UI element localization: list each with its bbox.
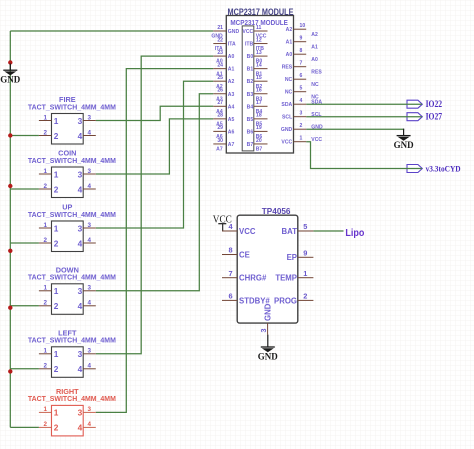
svg-text:PROG: PROG (274, 296, 297, 305)
svg-text:IO22: IO22 (426, 100, 443, 110)
svg-text:1: 1 (300, 136, 303, 142)
svg-text:22: 22 (217, 37, 223, 43)
svg-text:3: 3 (300, 111, 303, 117)
svg-text:8: 8 (228, 246, 232, 255)
svg-text:NC: NC (285, 90, 293, 96)
svg-text:3: 3 (78, 286, 83, 296)
svg-text:30: 30 (217, 138, 223, 144)
svg-text:1: 1 (303, 269, 307, 278)
svg-text:SCL: SCL (311, 112, 321, 118)
svg-text:TEMP: TEMP (275, 274, 297, 283)
svg-text:2: 2 (54, 238, 59, 248)
svg-text:A6: A6 (228, 129, 235, 135)
svg-text:1: 1 (54, 286, 59, 296)
svg-text:7: 7 (228, 269, 232, 278)
svg-text:B7: B7 (256, 147, 263, 153)
svg-text:SDA: SDA (281, 102, 292, 108)
wire COIN pin3 to U1 pin28 (96, 119, 214, 174)
U2 left pins (222, 222, 270, 305)
svg-text:8: 8 (300, 48, 303, 54)
svg-text:4: 4 (87, 183, 91, 190)
svg-text:RES: RES (282, 65, 293, 71)
svg-text:4: 4 (78, 238, 83, 248)
svg-text:29: 29 (217, 125, 223, 131)
svg-text:2: 2 (44, 183, 48, 190)
svg-text:1: 1 (44, 285, 48, 292)
svg-text:17: 17 (256, 100, 262, 106)
tact switch UP (28, 203, 116, 252)
svg-text:A2: A2 (286, 27, 293, 33)
svg-text:26: 26 (217, 88, 223, 94)
svg-text:4: 4 (78, 184, 83, 194)
svg-text:A4: A4 (228, 104, 235, 110)
svg-text:6: 6 (228, 292, 232, 301)
svg-text:CE: CE (239, 250, 250, 259)
svg-text:B3: B3 (247, 92, 254, 98)
net label Lipo (345, 227, 364, 239)
U2 bottom pin 3 GND (259, 303, 273, 334)
svg-text:2: 2 (54, 301, 59, 311)
svg-text:GND: GND (281, 127, 293, 133)
svg-text:1: 1 (54, 116, 59, 126)
svg-text:4: 4 (87, 129, 91, 136)
svg-text:A7: A7 (228, 142, 235, 148)
svg-text:TACT_SWITCH_4MM_4MM: TACT_SWITCH_4MM_4MM (28, 394, 116, 403)
svg-text:4: 4 (87, 421, 91, 428)
junction dot 6 on GND rail (8, 369, 12, 373)
tact switch FIRE (28, 95, 116, 144)
IC U2 TP4056 (237, 207, 298, 323)
svg-text:19: 19 (256, 125, 262, 131)
svg-text:BAT: BAT (282, 227, 298, 236)
svg-text:3: 3 (87, 222, 91, 229)
U1 right pins 1-10 (281, 23, 323, 146)
wire U1 GND pin2 to ground (306, 128, 403, 130)
svg-text:2: 2 (44, 129, 48, 136)
svg-text:16: 16 (256, 88, 262, 94)
svg-text:VCC: VCC (281, 140, 292, 146)
svg-text:NC: NC (311, 82, 319, 88)
wire U1 SCL to IO27 port (306, 116, 422, 118)
svg-text:4: 4 (78, 131, 83, 141)
tact switch COIN (28, 149, 116, 198)
svg-text:CHRG#: CHRG# (239, 274, 267, 283)
svg-text:2: 2 (44, 300, 48, 307)
ground flag top-left (0, 64, 20, 86)
svg-text:A1: A1 (228, 67, 235, 73)
wire FIRE pin3 to U1 pin27 (96, 106, 214, 120)
svg-text:IO27: IO27 (426, 113, 443, 123)
junction dot 2 on GND rail (8, 133, 12, 137)
wire LEFT pin2 to GND rail (10, 368, 39, 370)
svg-text:A1: A1 (286, 40, 293, 46)
wire U1 VCC pin1 to v3.3toCYD port (306, 142, 422, 169)
svg-text:4: 4 (87, 300, 91, 307)
IC U1 MCP2317 MODULE (226, 7, 293, 153)
svg-text:27: 27 (217, 100, 223, 106)
svg-text:4: 4 (78, 423, 83, 433)
svg-text:1: 1 (54, 169, 59, 179)
tact switch DOWN (28, 265, 116, 314)
junction dot 1 on GND rail (8, 60, 12, 64)
svg-text:3: 3 (78, 116, 83, 126)
svg-text:20: 20 (256, 138, 262, 144)
svg-text:5: 5 (300, 86, 303, 92)
svg-text:RES: RES (311, 70, 322, 76)
VCC power flag at U2 pin4 (213, 215, 232, 232)
svg-text:1: 1 (44, 348, 48, 355)
svg-text:3: 3 (259, 329, 268, 333)
wire UP pin3 to U1 pin25 (96, 81, 214, 228)
svg-text:4: 4 (78, 301, 83, 311)
svg-text:3: 3 (87, 285, 91, 292)
U1 left pins 21-30 (211, 25, 239, 153)
wire GND left rail vertical (9, 31, 11, 427)
wire U1 SDA to IO22 port (306, 103, 422, 105)
svg-text:v3.3toCYD: v3.3toCYD (426, 164, 461, 174)
svg-text:6: 6 (300, 73, 303, 79)
svg-text:2: 2 (54, 184, 59, 194)
svg-text:21: 21 (217, 25, 223, 31)
svg-text:GND: GND (264, 303, 273, 321)
svg-text:10: 10 (300, 23, 306, 29)
svg-text:TACT_SWITCH_4MM_4MM: TACT_SWITCH_4MM_4MM (28, 210, 116, 219)
svg-text:B1: B1 (247, 67, 254, 73)
svg-text:A3: A3 (228, 92, 235, 98)
svg-text:GND: GND (258, 352, 278, 362)
svg-text:1: 1 (54, 408, 59, 418)
svg-text:3: 3 (78, 408, 83, 418)
svg-text:1: 1 (54, 349, 59, 359)
svg-text:3: 3 (78, 169, 83, 179)
svg-text:GND: GND (0, 76, 20, 86)
wire LEFT pin3 to U1 pin23 (96, 56, 214, 354)
svg-text:NC: NC (285, 77, 293, 83)
svg-text:1: 1 (44, 406, 48, 413)
svg-text:4: 4 (87, 237, 91, 244)
wire GND top horizontal from U1 pin21 to rail (10, 30, 213, 32)
U2 right pins (274, 222, 313, 305)
wire FIRE pin2 to GND rail (10, 135, 39, 137)
svg-text:15: 15 (256, 75, 262, 81)
svg-text:28: 28 (217, 113, 223, 119)
svg-text:TACT_SWITCH_4MM_4MM: TACT_SWITCH_4MM_4MM (28, 273, 116, 282)
wire COIN pin2 to GND rail (10, 188, 39, 190)
svg-text:9: 9 (303, 249, 307, 258)
svg-text:ITB: ITB (245, 42, 254, 48)
svg-text:B6: B6 (247, 129, 254, 135)
svg-text:VCC: VCC (239, 227, 256, 236)
svg-text:A2: A2 (228, 79, 235, 85)
wire rail corner to RIGHT pin2 (10, 426, 39, 428)
svg-text:A7: A7 (216, 147, 223, 153)
svg-text:A0: A0 (228, 54, 235, 60)
svg-text:14: 14 (256, 62, 262, 68)
svg-text:25: 25 (217, 75, 223, 81)
U1 inner pins 11-20 (242, 25, 267, 153)
svg-text:11: 11 (256, 25, 262, 31)
svg-text:ITA: ITA (228, 42, 236, 48)
svg-text:9: 9 (300, 36, 303, 42)
svg-text:24: 24 (217, 62, 223, 68)
wire DOWN pin2 to GND rail (10, 305, 39, 307)
junction dot 3 on GND rail (8, 184, 12, 188)
svg-text:A5: A5 (228, 117, 235, 123)
junction dot 5 on GND rail (8, 306, 12, 310)
tact switch RIGHT (28, 387, 116, 436)
svg-text:1: 1 (44, 114, 48, 121)
net port IO22 (407, 100, 442, 110)
ground flag below U2 TP4056 (258, 335, 278, 363)
wire DOWN pin3 to U1 pin26 (96, 94, 214, 291)
wire UP pin2 to GND rail (10, 242, 39, 244)
svg-text:A2: A2 (311, 32, 318, 38)
svg-text:VCC: VCC (311, 137, 322, 143)
svg-text:3: 3 (87, 168, 91, 175)
net port IO27 (407, 113, 442, 123)
svg-text:2: 2 (303, 292, 307, 301)
svg-text:B0: B0 (247, 54, 254, 60)
svg-text:3: 3 (87, 114, 91, 121)
svg-text:12: 12 (256, 37, 262, 43)
svg-text:GND: GND (394, 141, 414, 151)
tact switch LEFT (28, 328, 116, 377)
junction dot 4 on GND rail (8, 249, 12, 253)
svg-text:4: 4 (87, 363, 91, 370)
svg-text:TACT_SWITCH_4MM_4MM: TACT_SWITCH_4MM_4MM (28, 156, 116, 165)
svg-text:1: 1 (44, 168, 48, 175)
svg-text:2: 2 (54, 423, 59, 433)
svg-text:3: 3 (78, 223, 83, 233)
svg-text:A1: A1 (311, 45, 318, 51)
svg-text:2: 2 (54, 364, 59, 374)
wire RIGHT pin3 to U1 pin24 (96, 69, 214, 413)
svg-text:13: 13 (256, 50, 262, 56)
svg-text:A0: A0 (311, 57, 318, 63)
svg-text:4: 4 (78, 364, 83, 374)
net port v3.3toCYD (407, 164, 461, 174)
svg-text:B2: B2 (247, 79, 254, 85)
svg-text:2: 2 (300, 123, 303, 129)
ground flag right of U1 (394, 129, 414, 151)
svg-text:5: 5 (303, 222, 307, 231)
svg-text:B4: B4 (247, 104, 254, 110)
svg-text:7: 7 (300, 61, 303, 67)
svg-text:2: 2 (44, 421, 48, 428)
svg-text:18: 18 (256, 113, 262, 119)
svg-text:SCL: SCL (282, 115, 292, 121)
svg-text:GND: GND (228, 29, 240, 35)
svg-text:1: 1 (44, 222, 48, 229)
svg-text:Lipo: Lipo (345, 227, 364, 239)
svg-text:TACT_SWITCH_4MM_4MM: TACT_SWITCH_4MM_4MM (28, 102, 116, 111)
svg-text:23: 23 (217, 50, 223, 56)
svg-text:EP: EP (287, 253, 297, 262)
svg-text:VCC: VCC (242, 29, 253, 35)
svg-text:2: 2 (44, 363, 48, 370)
svg-text:3: 3 (78, 349, 83, 359)
svg-text:3: 3 (87, 348, 91, 355)
svg-text:4: 4 (300, 98, 303, 104)
svg-text:GND: GND (311, 124, 323, 130)
svg-text:2: 2 (54, 131, 59, 141)
svg-text:A0: A0 (286, 52, 293, 58)
svg-text:1: 1 (54, 223, 59, 233)
svg-text:SDA: SDA (311, 99, 322, 105)
svg-text:2: 2 (44, 237, 48, 244)
svg-text:B5: B5 (247, 117, 254, 123)
svg-text:TACT_SWITCH_4MM_4MM: TACT_SWITCH_4MM_4MM (28, 336, 116, 345)
svg-text:B7: B7 (247, 142, 254, 148)
wire U2 BAT to Lipo (313, 230, 343, 232)
svg-text:3: 3 (87, 406, 91, 413)
